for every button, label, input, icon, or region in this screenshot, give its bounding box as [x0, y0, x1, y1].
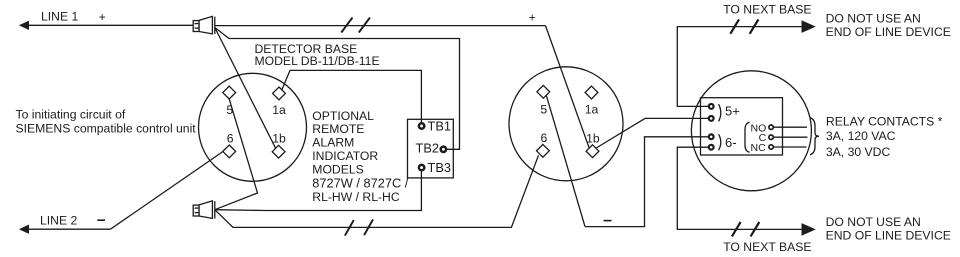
detector base 2 circle: [509, 67, 623, 181]
svg-text:+: +: [529, 10, 536, 24]
relay base circle: [691, 71, 811, 191]
paren 5+ pair: [719, 104, 721, 121]
wire nut to terminal 1b: [215, 28, 276, 149]
svg-text:MODEL DB-11/DB-11E: MODEL DB-11/DB-11E: [255, 54, 380, 68]
terminal 1b (base 2): [586, 145, 599, 158]
wire TB3 to bottom nut: [215, 171, 422, 211]
wire nut W2 (bottom splice connector): [193, 201, 215, 219]
svg-text:END OF LINE DEVICE: END OF LINE DEVICE: [826, 25, 951, 39]
detector base 1 circle: [199, 73, 307, 181]
svg-text:8727W / 8727C /: 8727W / 8727C /: [312, 175, 408, 190]
svg-text:1b: 1b: [272, 132, 286, 146]
svg-text:TO NEXT BASE: TO NEXT BASE: [723, 240, 811, 254]
svg-text:RELAY CONTACTS *: RELAY CONTACTS *: [826, 115, 943, 129]
svg-text:5: 5: [540, 102, 547, 116]
break marks top-right: [730, 19, 758, 33]
arrow LINE 2 left: [19, 225, 29, 234]
relay terminal 5+ upper: [709, 104, 714, 109]
terminal 1a (base 2): [585, 86, 598, 99]
svg-text:1b: 1b: [586, 131, 600, 145]
svg-text:END OF LINE DEVICE: END OF LINE DEVICE: [826, 228, 951, 242]
terminal 6 (base 2): [537, 144, 550, 157]
terminal 1a (base 1): [273, 87, 286, 100]
paren 6- pair: [719, 134, 721, 150]
wire relay 5+ to next base top: [677, 27, 802, 107]
wire 1b base2 to relay 5+: [596, 118, 708, 148]
svg-text:5+: 5+: [725, 103, 740, 118]
label minus (line 2 polarity): [97, 219, 105, 221]
svg-text:3A, 120 VAC: 3A, 120 VAC: [826, 129, 896, 143]
terminal 5 (base 1): [223, 86, 236, 99]
terminal 6 (base 1): [223, 145, 236, 158]
wire line 1 bend to terminal 1b (base 2): [546, 26, 590, 149]
svg-text:6-: 6-: [725, 135, 737, 150]
svg-text:1a: 1a: [272, 103, 286, 117]
svg-text:TB1: TB1: [428, 118, 451, 133]
wire nut W1 (top splice connector): [193, 16, 215, 34]
wire label leader to TB1: [282, 70, 421, 122]
arrow next base top: [802, 20, 816, 33]
relay terminal 5+ lower: [709, 116, 714, 121]
brace relay contacts: [810, 118, 819, 155]
terminal 1b (base 1): [272, 145, 285, 158]
break marks top-left: [341, 18, 370, 33]
relay terminal 6- upper: [709, 134, 714, 139]
wire terminal 5 to bottom nut: [215, 99, 258, 210]
svg-text:6: 6: [541, 131, 548, 145]
wire base 2 bottom to relay 6-: [585, 137, 709, 227]
svg-text:To initiating circuit of: To initiating circuit of: [16, 108, 126, 122]
svg-text:RL-HW / RL-HC: RL-HW / RL-HC: [312, 190, 400, 204]
paren contacts: [745, 122, 750, 152]
svg-text:REMOTE: REMOTE: [312, 122, 364, 136]
wire bottom run nut to base 2: [215, 155, 539, 227]
wire top run nut to bend: [215, 25, 546, 27]
wire LINE 1 horizontal: [28, 24, 193, 26]
break marks bottom-right: [732, 222, 759, 236]
terminal TB3: [419, 165, 424, 170]
svg-text:DO NOT USE AN: DO NOT USE AN: [826, 215, 921, 229]
svg-text:TB3: TB3: [428, 160, 451, 175]
label OPTIONAL REMOTE ALARM INDICATOR: [312, 109, 408, 204]
svg-text:ALARM: ALARM: [312, 136, 354, 150]
remote indicator terminal box: [408, 119, 454, 178]
svg-text:TB2: TB2: [416, 141, 439, 156]
wire LINE 2 horizontal: [28, 228, 110, 230]
arrow LINE 1 left: [19, 21, 29, 30]
svg-text:LINE 1: LINE 1: [41, 10, 78, 24]
contact C: [769, 135, 773, 139]
svg-text:TO NEXT BASE: TO NEXT BASE: [723, 3, 811, 17]
wire NO stub: [774, 126, 807, 128]
svg-text:6: 6: [227, 131, 234, 145]
contact NO: [769, 125, 773, 129]
contact NC: [769, 145, 773, 149]
svg-text:OPTIONAL: OPTIONAL: [312, 109, 374, 123]
wire relay 6- to next base bottom: [677, 147, 802, 229]
relay terminal 6- lower: [709, 145, 714, 150]
svg-text:NC: NC: [751, 142, 767, 154]
wire C stub: [774, 136, 808, 138]
wire NC stub: [774, 146, 807, 148]
relay module box: [701, 98, 783, 155]
svg-text:SIEMENS compatible control uni: SIEMENS compatible control unit: [16, 122, 197, 136]
arrow next base bottom: [802, 223, 816, 236]
svg-text:INDICATOR: INDICATOR: [312, 149, 378, 163]
wire nut to TB2: [215, 28, 460, 150]
wire terminal 6 to LINE 2: [110, 152, 222, 230]
terminal TB1: [419, 123, 424, 128]
wire terminal 5 (base 2) to bottom run: [546, 96, 585, 227]
svg-text:3A, 30 VDC: 3A, 30 VDC: [826, 145, 891, 159]
svg-text:1a: 1a: [585, 102, 599, 116]
terminal 5 (base 2): [537, 85, 550, 98]
break marks bottom-left: [345, 220, 373, 236]
svg-text:+: +: [99, 10, 106, 24]
svg-text:DO NOT USE AN: DO NOT USE AN: [826, 12, 921, 26]
svg-text:LINE 2: LINE 2: [40, 213, 77, 227]
label minus (base 2 out): [604, 220, 612, 222]
